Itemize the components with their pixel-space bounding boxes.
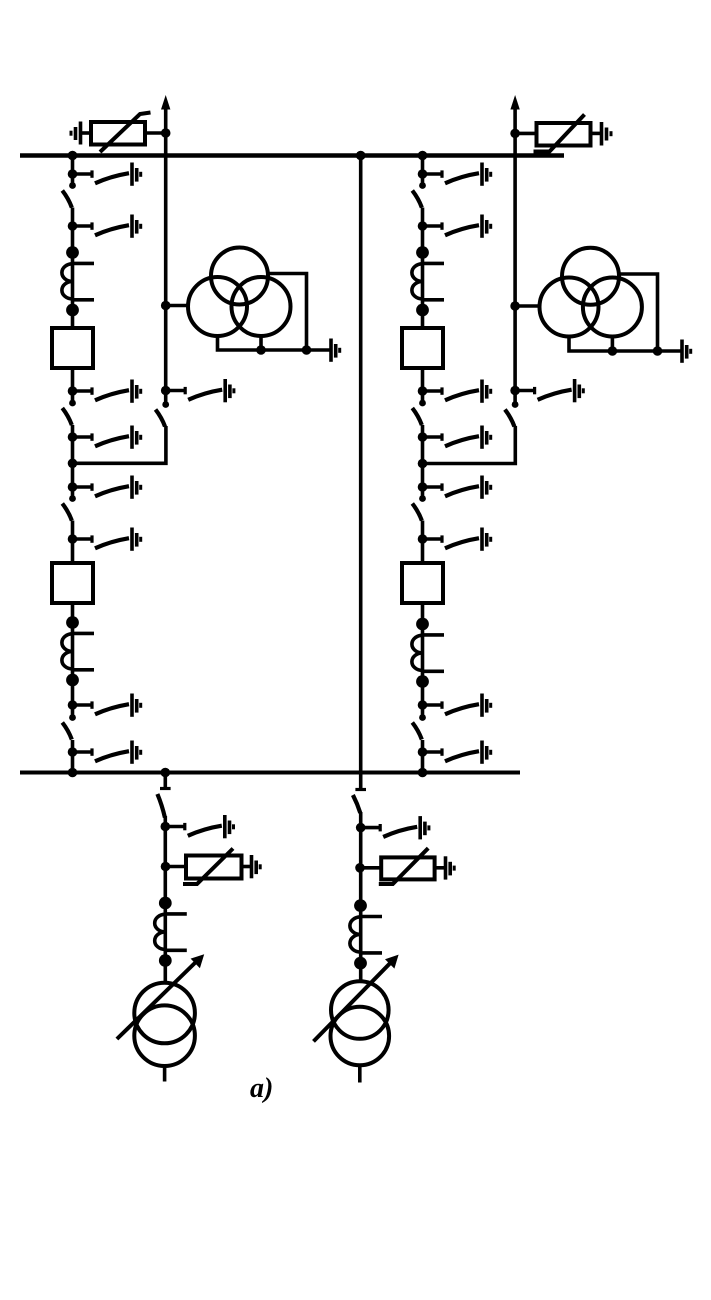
label a) [250,1073,273,1105]
tap changer arrow T2 [314,955,399,1042]
busbar W2 (lower) [20,771,520,775]
earthing switch QSG7 [68,528,141,551]
disconnector QS4 [62,495,76,520]
circuit breaker Q1 [52,328,93,368]
ground of FV4 [446,856,455,879]
wire [421,368,425,403]
transformer branch 2 [355,773,366,790]
node: bypass tie right [418,459,428,469]
disconnector QS10 [412,714,426,739]
line arrow (left bypass riser) [161,95,170,405]
ground of TV1 [331,339,340,362]
node: feeder 2 on W2 [418,768,428,778]
disconnector QS1 (bus side) [62,182,76,207]
disconnector QS12 [353,795,360,813]
node: bypass W1 junction left [161,128,171,138]
wire [71,521,75,564]
voltage transformer TV2 [515,248,681,356]
disconnector QS3 (left bypass) [156,401,170,426]
earthing switch QSG8 [68,694,141,717]
earthing switch QSG14 on right bypass [510,379,583,402]
wire: left bypass to feeder [73,426,166,463]
earthing switch QSG18 [418,741,491,764]
earthing switch QSG20 [356,816,429,839]
earthing switch QSG11 [418,215,491,238]
node: VT tap right [510,301,520,311]
earthing switch QSG16 [418,528,491,551]
earthing switch QSG10 [418,163,491,186]
surge arrester FV4 [355,848,444,884]
earthing switch QSG9 [68,741,141,764]
earthing switch QSG2 [68,215,141,238]
earthing switch QSG12 [418,380,491,403]
wire [71,425,75,499]
node: VT tap left [161,301,171,311]
surge arrester FV3 [161,849,250,885]
disconnector QS9 [412,495,426,520]
disconnector QS6 (bus side) [412,182,426,207]
earthing switch QSG19 [161,815,234,838]
wire [421,425,425,499]
surge arrester FV2 (top right) [515,115,611,152]
wire [421,208,425,329]
ground of TV2 [682,340,691,363]
feeder line 2 (right) segments [421,156,425,186]
current transformer TA4 [412,618,444,688]
earthing switch QSG4 [68,426,141,449]
earthing switch QSG5 on left bypass [161,379,234,402]
wire: right bypass to feeder [423,426,516,464]
feeder line 1 (left) segments [71,156,75,186]
current transformer TA2 [62,616,94,686]
circuit breaker Q3 [402,328,443,368]
earthing switch QSG1 [68,163,141,186]
circuit breaker Q2 [52,563,93,603]
circuit breaker Q4 [402,563,443,603]
wire [71,208,75,329]
busbar W1 (upper) [20,153,564,157]
node: tie on W1 [356,151,366,161]
surge arrester FV1 (top left) [71,113,166,153]
current transformer TA6 [350,899,382,969]
wire [164,816,168,983]
node: feeder 1 on W2 [68,768,78,778]
transformer T1 [134,983,195,1082]
transformer T2 [331,981,390,1082]
node: bypass W1 junction right [510,129,520,139]
node: feeder 1 on W1 [68,151,78,161]
wire [359,812,363,982]
earthing switch QSG3 [68,380,141,403]
line arrow (right bypass riser) [510,95,519,405]
disconnector QS5 [62,714,76,739]
transformer branch 1 [160,768,171,789]
earthing switch QSG17 [418,694,491,717]
disconnector QS11 [157,794,165,818]
middle tie line W1-W2 [359,156,363,773]
disconnector QS8 (right bypass) [505,401,519,426]
wire [421,740,425,773]
current transformer TA1 [62,246,94,316]
current transformer TA5 [155,897,187,967]
current transformer TA3 [412,246,444,316]
node: feeder 2 on W1 [418,151,428,161]
wire [71,603,75,718]
earthing switch QSG13 [418,426,491,449]
earthing switch QSG15 [418,476,491,499]
tap changer arrow T1 [117,954,204,1039]
wire [71,368,75,403]
voltage transformer TV1 [166,248,330,355]
wire [421,603,425,718]
wire [71,740,75,773]
earthing switch QSG6 [68,476,141,499]
ground of FV3 [252,855,261,878]
disconnector QS7 [412,400,426,425]
node: bypass tie left [68,459,78,469]
wire [421,521,425,564]
disconnector QS2 [62,400,76,425]
